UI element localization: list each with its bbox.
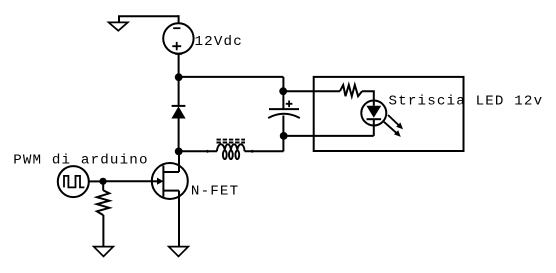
resistor R2 (horizontal zigzag) xyxy=(340,85,362,96)
junction tick on rail xyxy=(207,150,209,153)
resistor R1 (vertical zigzag) xyxy=(97,190,109,215)
inductor L1 xyxy=(217,140,246,160)
node A junction dot xyxy=(175,73,183,81)
wire V1 top stub xyxy=(178,15,180,24)
LED light arrow 1 xyxy=(388,115,403,129)
pin tick at V1 bottom xyxy=(175,53,182,55)
wire capacitor branch upper xyxy=(282,77,284,109)
wire bottom rail node D to inductor xyxy=(179,150,217,152)
wire V1 bottom to node A xyxy=(178,53,180,77)
ground GND1 (top left) xyxy=(109,16,128,31)
wire drain of Q1 to node D xyxy=(178,151,180,172)
node B junction dot xyxy=(279,87,287,95)
wire diode D1 to node D xyxy=(178,118,180,152)
wire node A to diode D1 xyxy=(178,77,180,106)
wire capacitor branch lower xyxy=(282,116,284,152)
svg-text:N-FET: N-FET xyxy=(191,184,239,200)
ground GND3 (below Q1) xyxy=(169,247,189,257)
mosfet Q1 N-FET xyxy=(152,163,188,199)
pulse source V2 xyxy=(58,166,89,197)
box Striscia LED xyxy=(314,77,464,151)
wire node E to gate of Q1 xyxy=(103,180,158,182)
voltage source V1 xyxy=(163,23,193,53)
svg-text:12Vdc: 12Vdc xyxy=(195,34,243,50)
node C junction dot xyxy=(280,132,288,140)
wire node C to box xyxy=(283,135,313,137)
wire top rail node A to capacitor branch xyxy=(179,76,284,78)
wire box left to resistor R2 xyxy=(314,90,340,92)
node D junction dot xyxy=(175,148,183,156)
diode D1 (flyback, pointing up) xyxy=(171,106,185,119)
capacitor C1 xyxy=(268,101,300,119)
wire bottom inside box xyxy=(314,135,374,137)
junction tick on rail xyxy=(251,150,253,153)
wire LED cathode down to bottom wire xyxy=(373,125,375,136)
wire V2 to node E xyxy=(89,180,103,182)
wire top from GND1 to V1 xyxy=(118,15,179,17)
ground GND2 (below R1) xyxy=(94,247,114,257)
svg-text:PWM di arduino: PWM di arduino xyxy=(13,153,148,169)
svg-text:Striscia LED 12v: Striscia LED 12v xyxy=(389,94,544,110)
node E junction dot xyxy=(99,178,106,185)
wire source of Q1 to ground xyxy=(178,191,180,247)
wire node E down to resistor R1 xyxy=(102,181,104,190)
wire resistor R1 to ground xyxy=(102,215,104,247)
wire resistor R2 to LED xyxy=(362,91,374,100)
wire node B to box xyxy=(283,90,313,92)
LED light arrow 2 xyxy=(384,122,401,137)
LED D2 xyxy=(361,101,386,126)
wire inductor to capacitor branch xyxy=(245,150,284,152)
